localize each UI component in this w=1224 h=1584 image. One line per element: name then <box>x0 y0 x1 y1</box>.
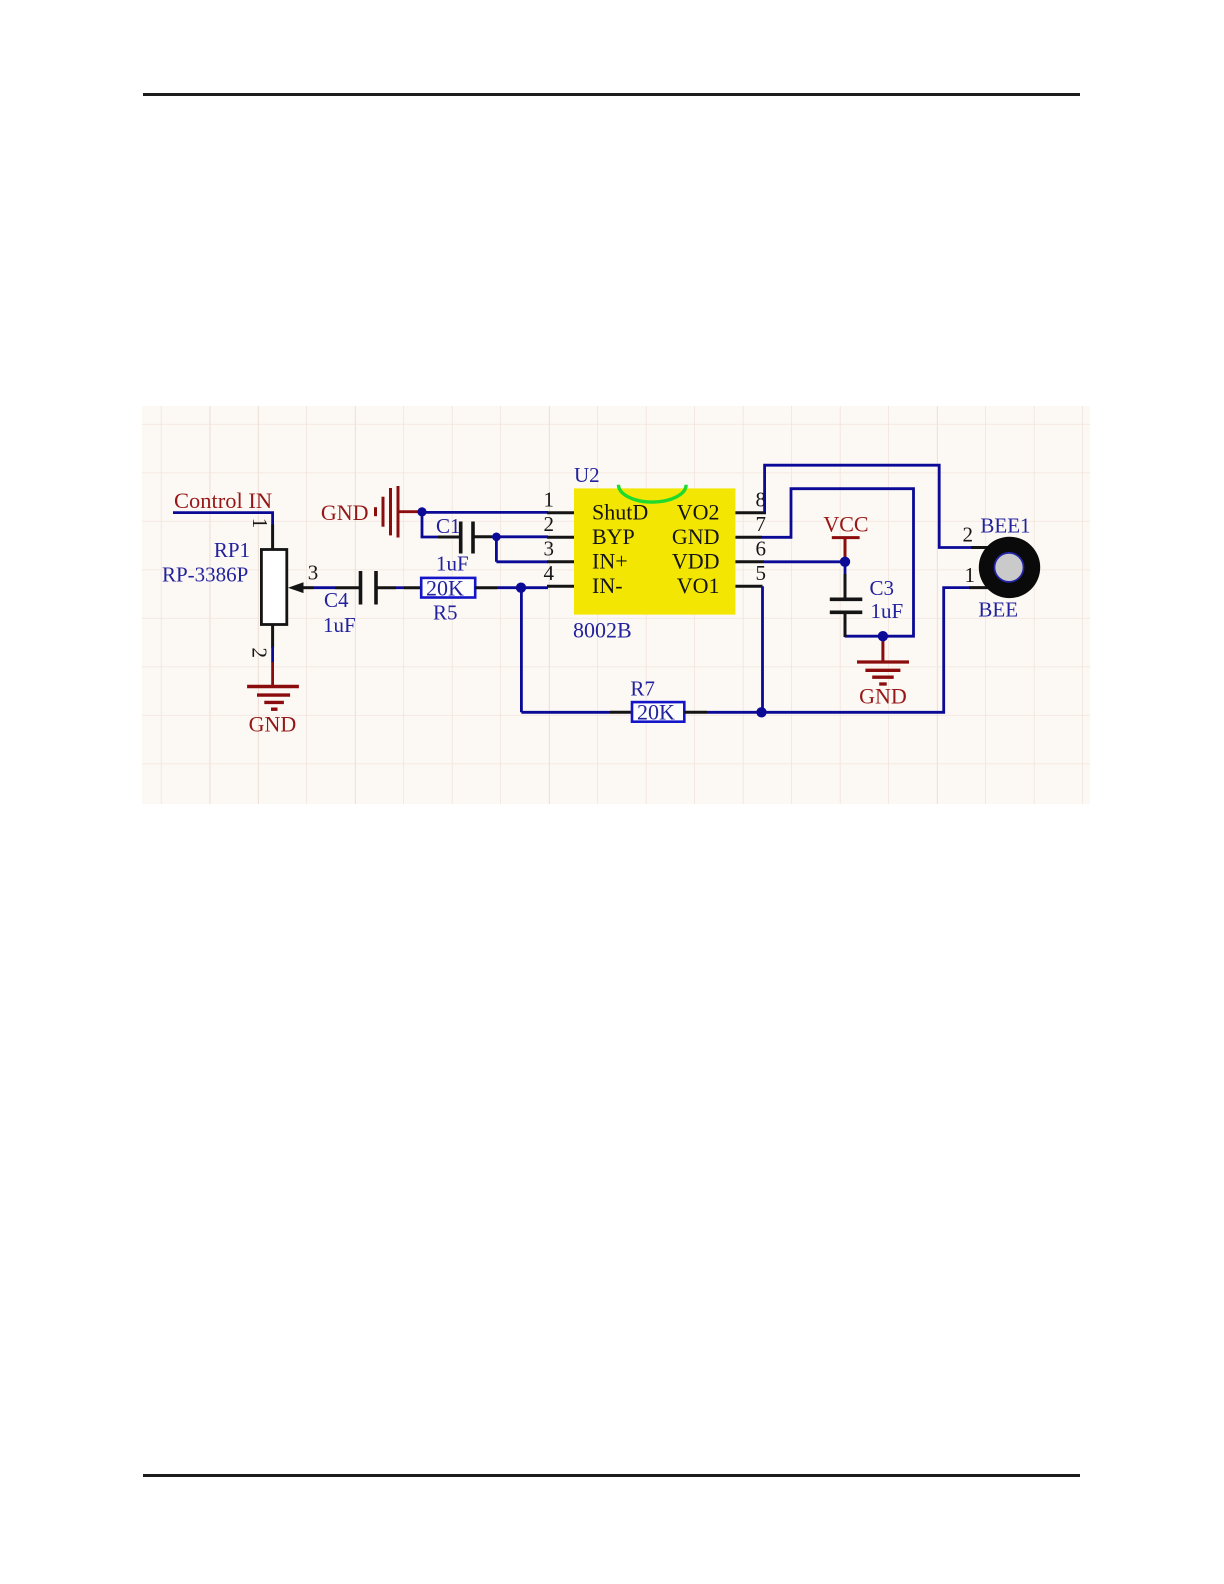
svg-text:8002B: 8002B <box>573 618 632 643</box>
capacitor C1 lead left <box>438 536 460 539</box>
svg-text:C1: C1 <box>436 514 461 538</box>
resistor R5 body <box>421 578 475 598</box>
junction node at BYP net <box>492 533 501 542</box>
svg-text:3: 3 <box>308 561 319 585</box>
svg-text:IN-: IN- <box>592 573 623 598</box>
op-amp U2 body (8002B) <box>574 488 735 614</box>
resistor R5 lead left <box>404 586 421 589</box>
pin 2 of RP1 (lead) <box>271 625 274 648</box>
U2 notch arc <box>619 485 687 502</box>
wire wiper to C4 <box>314 586 336 589</box>
svg-text:VDD: VDD <box>672 549 720 574</box>
wire VDD (pin 6) to VCC node <box>764 560 846 563</box>
svg-text:R7: R7 <box>630 677 655 701</box>
resistor R7 body <box>632 702 684 722</box>
svg-text:2: 2 <box>544 512 555 536</box>
pin 1 of RP1 (lead) <box>271 525 274 551</box>
top horizontal rule <box>143 93 1080 96</box>
svg-text:7: 7 <box>756 512 767 536</box>
junction IN- node <box>516 583 526 593</box>
svg-text:C3: C3 <box>870 576 895 600</box>
wire feedback row to R7 <box>521 711 610 714</box>
capacitor C3 lead top <box>844 562 847 574</box>
wire GND junction to pin 1 <box>422 511 548 514</box>
schematic canvas <box>142 406 1090 804</box>
svg-text:1: 1 <box>965 563 976 587</box>
capacitor C3 plates <box>830 597 863 601</box>
capacitor C3 lead bottom <box>844 612 847 637</box>
capacitor C1 lead right <box>473 535 492 538</box>
wire GND (pin 7) loop to C3 bottom <box>762 489 914 637</box>
schematic sheet background <box>142 406 1090 804</box>
svg-text:1: 1 <box>248 518 272 529</box>
wire Control IN horizontal <box>173 511 274 514</box>
junction node feedback/VO1 <box>756 707 766 717</box>
bottom horizontal rule <box>143 1474 1080 1477</box>
U2 pin names left <box>592 500 648 599</box>
resistor R5 lead right <box>475 586 497 589</box>
wire C1 to pin 2 <box>492 535 548 538</box>
svg-text:C4: C4 <box>324 588 349 612</box>
wire IN- node down to feedback row <box>520 588 523 713</box>
svg-text:U2: U2 <box>574 463 600 487</box>
wire RP1 pin2 to GND <box>271 647 274 663</box>
svg-text:2: 2 <box>247 648 271 659</box>
capacitor C4 lead right <box>376 586 396 589</box>
svg-text:BEE: BEE <box>978 598 1018 622</box>
svg-text:4: 4 <box>544 561 555 585</box>
U2 pin lines left (pins 1-4) <box>547 513 574 587</box>
svg-text:RP1: RP1 <box>214 538 250 562</box>
svg-text:20K: 20K <box>637 700 675 725</box>
wire R7 to speaker pin1 branch <box>707 588 970 713</box>
svg-text:IN+: IN+ <box>592 549 628 574</box>
speaker BEE1 pin 2 lead <box>971 546 995 549</box>
svg-text:20K: 20K <box>426 576 464 601</box>
svg-text:3: 3 <box>544 536 555 560</box>
svg-text:VO2: VO2 <box>677 500 720 525</box>
resistor R7 lead right <box>684 711 707 714</box>
wire Control IN vertical stub <box>271 513 274 525</box>
capacitor C1 plates <box>459 522 463 554</box>
ground symbol (rotated bars) <box>376 486 422 538</box>
ground GND (below RP1) <box>247 662 299 709</box>
svg-text:R5: R5 <box>433 601 458 625</box>
resistor R7 lead left <box>610 711 632 714</box>
U2 pin numbers 8-5 <box>756 487 767 585</box>
wire VO1 (pin 5) down to feedback row <box>761 586 764 712</box>
svg-text:GND: GND <box>249 712 297 737</box>
svg-text:ShutD: ShutD <box>592 500 648 525</box>
svg-text:6: 6 <box>756 536 767 560</box>
svg-text:VO1: VO1 <box>677 573 720 598</box>
svg-text:GND: GND <box>321 500 369 525</box>
power VCC symbol <box>844 538 847 559</box>
svg-text:GND: GND <box>859 684 907 709</box>
U2 pin lines right (pins 5-8) <box>735 513 766 587</box>
speaker BEE1 pin 1 lead <box>969 586 995 589</box>
potentiometer RP1 body <box>261 550 286 625</box>
svg-text:Control IN: Control IN <box>174 488 272 513</box>
U2 pin numbers 1-4 <box>544 487 555 585</box>
svg-text:BEE1: BEE1 <box>980 514 1030 538</box>
wire BYP node down to IN+ <box>495 537 498 562</box>
svg-text:1: 1 <box>544 487 555 511</box>
svg-text:2: 2 <box>963 523 974 547</box>
svg-text:5: 5 <box>756 561 767 585</box>
svg-text:VCC: VCC <box>823 512 868 537</box>
junction node at VDD/VCC <box>840 557 850 567</box>
svg-text:RP-3386P: RP-3386P <box>162 563 248 587</box>
speaker BEE1 body <box>979 537 1040 598</box>
capacitor C4 plates <box>359 571 363 605</box>
wire R5 to pin 4 <box>497 586 548 589</box>
wire junction down to C1 <box>421 512 424 537</box>
capacitor C4 lead left <box>335 586 360 589</box>
svg-text:BYP: BYP <box>592 524 635 549</box>
potentiometer RP1 wiper arrow <box>301 586 314 589</box>
junction node at pin1 net <box>417 507 426 516</box>
wire VO2 (pin 8) to speaker pin 2 <box>765 465 973 547</box>
junction node at C3 bottom <box>878 631 888 641</box>
svg-text:1uF: 1uF <box>871 599 904 623</box>
ground GND (right, below C3) <box>857 640 909 684</box>
svg-text:GND: GND <box>672 524 720 549</box>
svg-text:1uF: 1uF <box>323 613 356 637</box>
wire C4 to R5 <box>396 586 404 589</box>
U2 pin names right <box>672 500 720 599</box>
svg-text:1uF: 1uF <box>436 552 469 576</box>
